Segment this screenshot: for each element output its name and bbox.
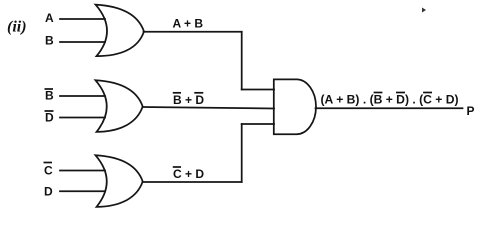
wire U3 output horizontal bbox=[143, 181, 242, 183]
wire U2 output to AND gate bbox=[143, 107, 275, 109]
wire B input bbox=[60, 41, 105, 43]
wire U3 into AND gate bbox=[242, 123, 274, 125]
and-gate U4 bbox=[274, 79, 316, 134]
wire U1 output horizontal bbox=[144, 31, 242, 33]
or-gate U2 (B-bar OR D-bar) bbox=[96, 80, 143, 132]
wire D-bar input bbox=[60, 117, 105, 119]
svg-text:P: P bbox=[467, 104, 475, 118]
wire B-bar input bbox=[60, 95, 105, 97]
wire U3 vertical rise bbox=[241, 124, 243, 182]
wire C-bar input bbox=[60, 170, 105, 172]
scan speck artifact bbox=[422, 8, 426, 13]
svg-text:A: A bbox=[45, 11, 54, 25]
wire P output bbox=[316, 107, 463, 109]
svg-text:(A + B) . (B + D) . (C + D): (A + B) . (B + D) . (C + D) bbox=[321, 93, 459, 107]
overbar on D in expression bbox=[396, 92, 405, 94]
svg-text:A + B: A + B bbox=[173, 17, 204, 31]
svg-text:B: B bbox=[45, 34, 54, 48]
or-gate U1 (A OR B) bbox=[96, 5, 145, 57]
wire U1 into AND gate bbox=[242, 89, 274, 91]
or-gate U3 (C-bar OR D) bbox=[96, 155, 143, 207]
svg-text:B: B bbox=[45, 89, 54, 103]
wire U1 vertical drop bbox=[241, 32, 243, 90]
svg-text:C + D: C + D bbox=[173, 167, 204, 181]
svg-text:D: D bbox=[45, 111, 54, 125]
svg-text:B + D: B + D bbox=[173, 93, 204, 107]
overbar on B in expression bbox=[374, 92, 383, 94]
overbar on C in expression bbox=[423, 92, 432, 94]
svg-text:C: C bbox=[44, 164, 53, 178]
svg-text:D: D bbox=[44, 185, 53, 199]
svg-text:(ii): (ii) bbox=[7, 19, 27, 36]
wire D input bbox=[60, 190, 105, 192]
wire A input bbox=[60, 18, 105, 20]
